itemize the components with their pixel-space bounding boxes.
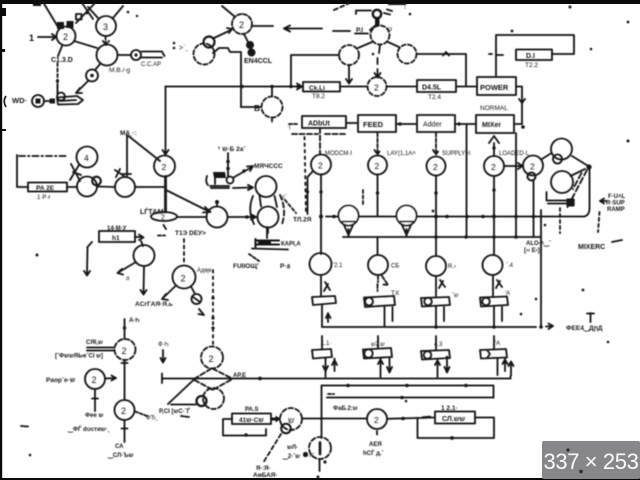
mixer circle bottom bbox=[258, 207, 279, 228]
link to square bbox=[44, 100, 50, 102]
left edge dash bbox=[2, 129, 6, 131]
left drop to mul row bbox=[321, 386, 323, 439]
node 2 row: col D bbox=[484, 156, 504, 176]
bracket dash-dot top left bbox=[19, 155, 66, 157]
wire ring to node 2b bbox=[214, 28, 232, 38]
stray dash bbox=[21, 425, 28, 428]
dashed circle bottom bbox=[309, 437, 331, 459]
dimension badge grey box bbox=[542, 441, 640, 479]
svg-text:ФЂˍ: ФЂˍ bbox=[146, 416, 158, 422]
node B dashed circle bbox=[262, 97, 283, 118]
tank circle col1 bbox=[310, 253, 332, 275]
colA vertical down to bus bbox=[320, 175, 322, 255]
big node circle bbox=[97, 45, 118, 66]
svg-text:D.I: D.I bbox=[526, 53, 535, 60]
svg-text:Т1Э DЕУ˃: Т1Э DЕУ˃ bbox=[175, 230, 206, 237]
dark pad on sled bbox=[567, 199, 575, 207]
svg-text:NORMAL: NORMAL bbox=[480, 105, 508, 112]
specks pair bbox=[173, 42, 176, 45]
indicator circle left-bottom bbox=[32, 95, 44, 107]
svg-text:ɑ: ɑ bbox=[126, 276, 129, 282]
bottom bus B y=385.5 bbox=[322, 386, 494, 398]
svg-text:А·Һ: А·Һ bbox=[129, 318, 140, 324]
svg-text:MIXERC: MIXERC bbox=[578, 244, 605, 251]
node 4 circle bbox=[77, 147, 98, 168]
circle lower right bbox=[551, 171, 573, 193]
wires from node 3 up bbox=[88, 6, 123, 18]
col4 drops bbox=[498, 359, 508, 376]
right loop circle (dashed) bbox=[398, 45, 417, 64]
vertical from B-circle right cluster bbox=[533, 180, 535, 237]
dashed drop Adder2 to node bbox=[433, 133, 439, 155]
bottom bus A y=378.5 bbox=[162, 376, 511, 379]
wire block left down bbox=[84, 242, 92, 276]
small circle cart right bbox=[227, 177, 234, 184]
block Adder2 bbox=[417, 115, 455, 132]
svg-text:ʹ2.1: ʹ2.1 bbox=[333, 262, 343, 269]
banner stem vertical bbox=[57, 84, 59, 94]
svg-text:2: 2 bbox=[239, 20, 244, 30]
svg-text:2: 2 bbox=[121, 406, 126, 416]
small dark circle between bbox=[92, 177, 101, 186]
svg-text:˃ʿˍ: ˃ʿˍ bbox=[179, 44, 188, 52]
node circle under diamond bbox=[203, 388, 224, 409]
ellipse node 2 bbox=[151, 212, 177, 221]
svg-text:КАРІ,А: КАРІ,А bbox=[281, 242, 301, 248]
svg-text:1: 1 bbox=[29, 33, 34, 43]
dash out of node 2T bbox=[135, 412, 147, 417]
dashed arrow to left bbox=[284, 26, 291, 32]
big circle top right bbox=[551, 139, 572, 160]
summing node 2 (main line) bbox=[368, 77, 387, 96]
tick under node B bbox=[271, 87, 273, 122]
node dashed circle left bbox=[194, 44, 215, 65]
arrow into D.I L block bbox=[297, 84, 302, 90]
valve ring dark bbox=[197, 396, 207, 406]
svg-text:ʹA: ʹA bbox=[505, 290, 510, 297]
wires between blocks bbox=[346, 123, 522, 124]
frame: left border line bbox=[0, 0, 2, 480]
dashed vertical under C1.3.D bbox=[57, 63, 59, 93]
node 2R dashed circle bbox=[115, 339, 136, 360]
P.I stem bbox=[375, 17, 380, 27]
block CL52 bbox=[435, 412, 475, 424]
wire node 2Q to block bbox=[387, 418, 435, 419]
svg-text:СА: СА bbox=[115, 444, 124, 450]
wire node2R down bbox=[124, 360, 126, 400]
svg-text:שЛ·: שЛ· bbox=[287, 445, 298, 451]
gauge arm down-left bbox=[118, 262, 137, 275]
svg-text:D4.5L: D4.5L bbox=[422, 85, 442, 92]
svg-text:F·U˄L: F·U˄L bbox=[608, 194, 626, 200]
svg-text:R.›: R.› bbox=[448, 264, 456, 270]
wires triangle right cluster bbox=[542, 153, 589, 176]
svg-text:2: 2 bbox=[375, 161, 380, 171]
col3 to bus3 bbox=[436, 307, 444, 328]
wire P to left circle bbox=[358, 42, 372, 48]
col2 riser from bus2 bbox=[377, 237, 379, 255]
valve1 col4 bbox=[480, 297, 508, 307]
dash diagonal near top bar bbox=[334, 2, 352, 10]
svg-text:EN4CCL: EN4CCL bbox=[244, 58, 273, 65]
circle pair left bbox=[77, 177, 97, 197]
svg-text:C1.3.D: C1.3.D bbox=[51, 57, 73, 64]
banner flag shape bbox=[57, 96, 83, 105]
wire block to gauge circle bbox=[135, 235, 144, 247]
svg-text:СЯІ,ש: СЯІ,ש bbox=[86, 340, 103, 346]
svg-text:2: 2 bbox=[162, 162, 167, 172]
svg-text:FUІІOЩʹ: FUІІOЩʹ bbox=[233, 263, 259, 270]
node 2S circle bbox=[85, 369, 105, 389]
svg-text:LAY(1,1A˄: LAY(1,1A˄ bbox=[387, 151, 416, 157]
col1 drops to bottom buses bbox=[323, 359, 337, 378]
wire: diagonal into node 2b bbox=[222, 6, 234, 16]
wire down to left cluster bbox=[163, 87, 169, 156]
sled bracket under mixer bbox=[256, 239, 280, 247]
dashed drop node3 to big node bbox=[103, 37, 109, 45]
bus 1 horizontal y=216.5 bbox=[326, 216, 584, 218]
frame: top letterbox bar bbox=[0, 0, 640, 4]
svg-text:MIXer: MIXer bbox=[482, 122, 501, 129]
left edge bracket mark bbox=[4, 96, 6, 107]
svg-text:ˁ ש·Б 2аˉ: ˁ ש·Б 2аˉ bbox=[218, 146, 246, 153]
svg-text:АР,Е: АР,Е bbox=[233, 373, 246, 379]
svg-text:R·SUP: R·SUP bbox=[606, 201, 625, 207]
wire to summing node bbox=[340, 86, 367, 88]
svg-text:FEED: FEED bbox=[363, 120, 384, 129]
col3 below circle bbox=[436, 276, 445, 296]
wire node 2S down bbox=[92, 389, 98, 411]
top bar bump bbox=[33, 0, 41, 6]
svg-text:АЕЯ: АЕЯ bbox=[369, 442, 382, 448]
corner riser right of col4 bbox=[509, 362, 514, 376]
wire big node to sensor bbox=[95, 64, 100, 70]
svg-text:2: 2 bbox=[92, 375, 97, 385]
mixer outlet down bbox=[267, 228, 269, 234]
diamond under node 2P bbox=[194, 369, 232, 390]
bracket vertical bbox=[17, 155, 28, 187]
vertical long right riser bbox=[540, 210, 542, 327]
col3 drops bbox=[435, 360, 450, 378]
svg-text:ADbUt: ADbUt bbox=[308, 121, 330, 128]
vertical adder2-col to buses bbox=[466, 124, 468, 237]
sensor circle with dot bbox=[86, 70, 98, 82]
svg-text:Pаорˉе·ש: Pаорˉе·ש bbox=[46, 377, 75, 384]
dash-dot drop to node 2N bbox=[212, 270, 214, 346]
svg-text:2: 2 bbox=[530, 162, 535, 172]
svg-text:2: 2 bbox=[491, 162, 496, 172]
svg-text:3: 3 bbox=[103, 22, 108, 32]
svg-text:B: B bbox=[254, 103, 260, 113]
node 2P dashed circle bbox=[201, 347, 223, 369]
ground tick symbol bbox=[587, 313, 594, 322]
junction dots on main wire bbox=[240, 85, 244, 89]
noise specks bbox=[86, 12, 89, 15]
enclosing arcs around mixer circles bbox=[250, 196, 254, 224]
sled step under node2b bbox=[213, 48, 241, 53]
wire: diagonal into node 2 top-left bbox=[43, 2, 58, 27]
svg-text:2: 2 bbox=[374, 83, 379, 93]
balloon pump 1 on bus bbox=[339, 206, 359, 226]
svg-text:2: 2 bbox=[433, 162, 438, 172]
svg-text:ש41·Сש: ש41·Сש bbox=[239, 417, 264, 424]
top-right loop rectangle bbox=[496, 35, 574, 77]
block D4.5L T2.4 bbox=[417, 80, 456, 92]
colB vertical bbox=[377, 175, 379, 217]
dash vertical x560 bbox=[559, 208, 561, 233]
node 2L circle on riser bbox=[154, 156, 175, 177]
svg-text:Р,СІ [שС·ˉЃ: Р,СІ [שС·ˉЃ bbox=[159, 407, 191, 415]
svg-text:MЯЧCСС: MЯЧCСС bbox=[254, 163, 283, 170]
feedback loop under block bbox=[418, 418, 495, 439]
wire node2b to blobs bbox=[244, 34, 248, 42]
sled bracket under circle bbox=[547, 192, 575, 204]
feedback wire right: to POWER column bbox=[417, 52, 466, 86]
svg-text:СЛ.שש: СЛ.שש bbox=[442, 416, 465, 423]
valve2 col2 bbox=[363, 348, 392, 359]
svg-text:ФаБ.2ːש: ФаБ.2ːש bbox=[333, 406, 358, 412]
col2 below circle bbox=[378, 275, 389, 291]
valve1 col3 bbox=[421, 297, 450, 307]
wire below node 2 bbox=[58, 46, 62, 56]
node 3 (top-left circle) bbox=[96, 16, 116, 36]
wire y=187 segments bbox=[67, 186, 166, 189]
colA side branch bbox=[308, 171, 314, 214]
main wire y=86.5 left segment bbox=[166, 86, 304, 88]
junction blob bbox=[586, 164, 591, 169]
svg-text:‿СЛ·Ъש: ‿СЛ·Ъש bbox=[107, 453, 133, 460]
valve1 col1 bbox=[312, 296, 336, 305]
svg-text:2: 2 bbox=[318, 161, 323, 171]
wire node 2T down bbox=[122, 420, 128, 442]
dash-dot vertical mid bbox=[305, 137, 307, 214]
block 41-C2 bbox=[232, 414, 271, 425]
block MIXer bbox=[476, 115, 514, 133]
left edge blob bbox=[0, 8, 6, 16]
dashed diagonal to AQBA bbox=[263, 434, 281, 463]
scribbles above circle pair bbox=[115, 169, 131, 177]
col1 to bus3 bbox=[322, 305, 331, 327]
svg-text:C.C.AP: C.C.AP bbox=[141, 62, 161, 68]
svg-text:P·ܦ: P·ܦ bbox=[280, 263, 291, 270]
block Ck.Li T8.2 bbox=[303, 82, 340, 92]
col2 drops bbox=[378, 359, 392, 378]
node 2Q circle bbox=[367, 409, 387, 429]
balloon pump 2 on bus bbox=[397, 206, 417, 226]
node 2b (top-middle circle) bbox=[232, 14, 252, 34]
steep diagonals bbox=[568, 170, 588, 207]
arrow pointing left to sled bbox=[600, 199, 606, 204]
col1 below circle bbox=[321, 275, 330, 296]
svg-text:POWER: POWER bbox=[480, 83, 509, 92]
bus3 end arrow bbox=[546, 324, 553, 330]
wire: X cross top-left bbox=[76, 3, 95, 23]
dash-dot feed to node 2M bbox=[183, 239, 185, 264]
col2 riser bbox=[377, 336, 379, 348]
specks near node 3 bbox=[127, 11, 130, 14]
tank circle col3 bbox=[426, 256, 446, 276]
svg-text:СБ: СБ bbox=[391, 264, 399, 270]
svg-text:RAMP: RAMP bbox=[607, 207, 625, 213]
svg-text:ˉ.4: ˉ.4 bbox=[506, 263, 514, 269]
dashed drop FEED to node bbox=[375, 133, 381, 155]
svg-text:ʹA: ʹA bbox=[495, 340, 500, 347]
wire: vertical EN4CCL feed bbox=[240, 53, 242, 107]
col2 to bus3 bbox=[385, 307, 393, 326]
svg-text:‿ФЃ dטстиש·ˍ: ‿ФЃ dטстиש·ˍ bbox=[67, 425, 110, 434]
dashed vertical near balloon bbox=[362, 190, 364, 205]
block PA 2E bbox=[28, 183, 67, 192]
wire EN4CCL vertical to B node bbox=[241, 106, 260, 108]
scribble X under node4 bbox=[70, 164, 81, 181]
svg-text:ALO·˄‿ˉ: ALO·˄‿ˉ bbox=[526, 241, 551, 248]
svg-text:⁝ʿ: ⁝ʿ bbox=[404, 3, 409, 11]
bus 2 horizontal y=237 bbox=[343, 236, 541, 238]
wire drop to node 2R bbox=[124, 319, 126, 339]
dark segment inside bbox=[319, 443, 322, 455]
valve1 col2 bbox=[364, 296, 395, 307]
dash vertical x599 bbox=[598, 212, 600, 232]
svg-text:ACгГAЯ·Я.ь: ACгГAЯ·Я.ь bbox=[135, 301, 173, 308]
svg-text:P.I: P.I bbox=[356, 27, 363, 34]
tick below dashed circle bbox=[319, 460, 321, 472]
svg-text:АөБАЯ·: АөБАЯ· bbox=[253, 472, 278, 479]
svg-text:Т.К: Т.К bbox=[391, 291, 400, 297]
wire bus to node 2Q bbox=[322, 418, 368, 420]
dashes right of donut bbox=[384, 10, 392, 15]
col3 riser bbox=[435, 336, 437, 350]
valve2 col4 bbox=[480, 349, 507, 359]
cart with flag bbox=[213, 172, 226, 178]
frame: bottom letterbox line bbox=[0, 478, 640, 480]
wire from left circle into main line bbox=[346, 65, 352, 84]
node 2 (top-left summing circle) bbox=[57, 27, 76, 46]
wire P to right circle bbox=[388, 42, 399, 47]
gauge drop to AGHAR bbox=[141, 266, 147, 295]
thick arrow into node 4B bbox=[272, 418, 279, 421]
tick B under ellipse bbox=[164, 225, 167, 229]
riser continues below node2L bbox=[164, 177, 167, 213]
left edge speck bbox=[2, 49, 5, 52]
links between mixer circles bbox=[260, 196, 278, 208]
wire MAY drop bbox=[126, 135, 128, 176]
node 2 row: col C bbox=[427, 157, 446, 176]
node 2 row: col B bbox=[368, 156, 387, 175]
node 2E bbox=[523, 156, 543, 176]
svg-text:ˉש: ˉש bbox=[452, 293, 459, 299]
pulley node circle bbox=[207, 207, 228, 228]
node P circle (dashed) bbox=[371, 26, 390, 45]
wire node 4B to bus riser bbox=[302, 418, 321, 420]
cross under ADDER bbox=[292, 128, 345, 154]
svg-text:Ck.Li: Ck.Li bbox=[309, 85, 325, 92]
svg-text:4: 4 bbox=[84, 153, 89, 163]
svg-text:2: 2 bbox=[122, 346, 127, 356]
small node B right bbox=[528, 173, 536, 181]
top bar bump 2 bbox=[388, 0, 406, 5]
wire node2 to big node bbox=[74, 41, 97, 48]
svg-text:1·P·ғ: 1·P·ғ bbox=[37, 195, 51, 201]
valve2 col1 bbox=[312, 349, 332, 359]
block D.I T2.2 bbox=[516, 50, 552, 61]
svg-text:·|: ·| bbox=[287, 124, 291, 130]
col4 riser bbox=[493, 336, 495, 349]
node 2T circle bbox=[115, 400, 135, 420]
P.I donut bbox=[373, 10, 381, 18]
svg-text:337 × 253: 337 × 253 bbox=[544, 449, 639, 474]
svg-text:2: 2 bbox=[63, 32, 68, 42]
svg-text:һ1: һ1 bbox=[112, 234, 120, 242]
bus1 junction dots bbox=[332, 215, 336, 219]
gauge circle bbox=[134, 245, 155, 266]
block FEED bbox=[358, 115, 396, 132]
svg-text:2: 2 bbox=[209, 354, 214, 364]
col1 risers bus3 to valve2 bbox=[321, 336, 323, 349]
wire to D4.5L bbox=[387, 86, 418, 88]
svg-text:Ф·Һ: Ф·Һ bbox=[158, 342, 169, 348]
block POWER bbox=[477, 77, 516, 95]
meter circle with dot bbox=[131, 50, 141, 60]
svg-text:·M.B./-g: ·M.B./-g bbox=[107, 67, 130, 74]
tank circle col4 bbox=[483, 255, 503, 275]
feedback wire left: from loop circle to EN4CCL column bbox=[291, 55, 339, 86]
col4 to bus3 bbox=[494, 307, 502, 327]
colC vertical bbox=[435, 176, 437, 257]
svg-text:2: 2 bbox=[181, 274, 186, 284]
dash diagonal to CL2R bbox=[285, 200, 296, 213]
bracket loop under block bbox=[223, 419, 266, 436]
block ADDER bbox=[302, 116, 346, 128]
small arrow down-right bbox=[199, 309, 205, 315]
tank circle col2 bbox=[368, 255, 388, 275]
svg-text:T8.2: T8.2 bbox=[312, 93, 325, 100]
dashes left of ADDER bbox=[289, 123, 299, 125]
node2M small outlet circle bbox=[191, 287, 195, 295]
right riser vertical bbox=[589, 167, 591, 208]
bus 3 y=327 bbox=[322, 326, 536, 328]
wire ellipse to pulley node bbox=[178, 216, 207, 218]
node 2 row: col A bbox=[311, 155, 331, 175]
right cluster: wire into node 2E bbox=[504, 163, 523, 169]
svg-text:һСЃ д.ˉ: һСЃ д.ˉ bbox=[363, 449, 384, 457]
wire POWER right down to mixer row bbox=[516, 87, 525, 125]
svg-text:ФЕЕ4‿ДրД: ФЕЕ4‿ДրД bbox=[566, 325, 603, 333]
wire to valve ring bbox=[171, 404, 196, 406]
svg-text:PA 2E: PA 2E bbox=[36, 185, 55, 192]
mixer circle top bbox=[256, 176, 277, 197]
valve ring small bbox=[204, 37, 215, 48]
tick under node 2Q bbox=[376, 431, 378, 435]
svg-text:[›‹ E›]: [›‹ E›] bbox=[524, 248, 540, 254]
wire D4.5L to POWER bbox=[456, 86, 477, 88]
dashes bbox=[158, 235, 165, 237]
svg-text:Adder: Adder bbox=[423, 122, 442, 129]
svg-text:T2.4: T2.4 bbox=[428, 94, 441, 101]
arrow into mixer circle bbox=[233, 185, 253, 190]
svg-text:ʊ: ʊ bbox=[388, 26, 392, 33]
wedge diagonal into pulley node bbox=[166, 190, 211, 213]
wire pulley node to mixer circle bbox=[228, 215, 257, 220]
svg-text:2: 2 bbox=[161, 215, 165, 222]
mixer outlet vertical bbox=[266, 227, 268, 238]
wire big node to meter circle bbox=[118, 54, 131, 56]
bottom bus C y=397.5 bbox=[327, 397, 494, 399]
block h1 bbox=[99, 231, 135, 242]
svg-text:РА.Ѕ: РА.Ѕ bbox=[245, 407, 258, 413]
svg-text:Фее ש: Фее ש bbox=[85, 413, 103, 419]
double wire into node 2R bbox=[87, 348, 114, 351]
double line output bbox=[142, 52, 165, 58]
